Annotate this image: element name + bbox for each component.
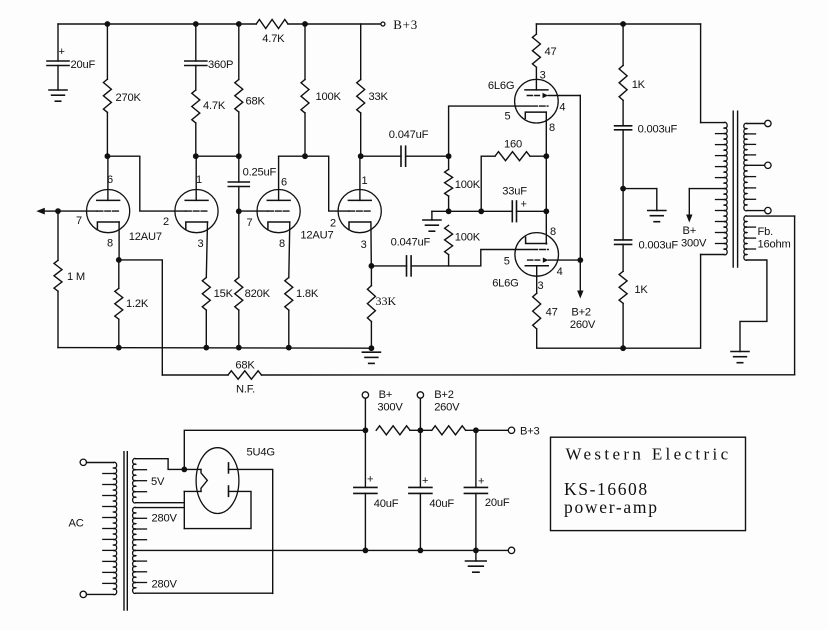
filament 5U4G — [201, 469, 207, 491]
wire 40uF-1 top lead — [364, 430, 366, 487]
resistor 100K (bottom grid leak) — [445, 225, 453, 254]
label B+2 (arrow) — [571, 307, 591, 319]
pin 7 label V3 — [247, 217, 253, 229]
label 0.047uF (top) — [389, 129, 429, 141]
svg-text:12AU7: 12AU7 — [129, 231, 162, 243]
svg-text:33K: 33K — [376, 294, 397, 308]
svg-text:+: + — [521, 199, 527, 211]
wire 0.25uF to V3 grid — [238, 187, 240, 212]
pin 8 label bottom 6L6G — [550, 226, 556, 238]
svg-text:B+2: B+2 — [434, 389, 454, 401]
wire rectifier bottom rectangle — [184, 491, 251, 528]
svg-text:1K: 1K — [634, 284, 648, 296]
resistor 1.2K — [115, 288, 123, 319]
node 68K/0.25uF — [236, 153, 242, 159]
pin 4 label bottom 6L6G — [557, 266, 563, 278]
wire 33K cathode resistor top — [370, 266, 372, 286]
svg-text:160: 160 — [504, 139, 522, 151]
wire center node to 0.003uF bottom — [622, 189, 624, 240]
node 270K/plate V1 — [105, 153, 111, 159]
pin 3 label top 6L6G — [540, 70, 546, 82]
wire 1M top lead — [57, 211, 59, 260]
label 1.2K — [126, 298, 149, 310]
label 5V — [151, 476, 165, 488]
svg-text:280V: 280V — [152, 579, 178, 591]
label 260V (arrow) — [570, 319, 596, 331]
svg-text:1.2K: 1.2K — [126, 298, 149, 310]
node V4 cathode / 33K / 0.047uF — [369, 263, 375, 269]
svg-text:820K: 820K — [245, 288, 271, 300]
wire screen column — [579, 96, 581, 260]
svg-text:33K: 33K — [369, 91, 389, 103]
ground PSU — [466, 561, 487, 572]
wire secondary tap1 — [747, 123, 765, 125]
node rail-100K — [302, 21, 308, 27]
svg-text:6: 6 — [281, 177, 287, 189]
label 0.25uF — [243, 167, 277, 179]
node bias row left — [446, 208, 452, 214]
wire 68K to 0.25uF junction — [238, 112, 240, 156]
wire 4.7K to plate junction — [195, 123, 197, 156]
wire gnd stub PSU — [475, 550, 477, 561]
core output transformer — [733, 111, 737, 267]
wire B+ terminal stub — [364, 398, 366, 430]
coil output secondary feedback — [744, 216, 756, 260]
node 100K/plate V3 — [302, 153, 308, 159]
svg-text:100K: 100K — [455, 179, 481, 191]
resistor 820K — [235, 278, 243, 311]
label + of 20uF PSU — [478, 476, 484, 488]
svg-text:8: 8 — [550, 226, 556, 238]
node bus-1.8K — [286, 345, 292, 351]
wire V4 cathode lead — [370, 222, 372, 266]
wire 160 right lead — [530, 155, 546, 157]
label 20uF — [71, 59, 96, 71]
wire B+3 top rail left segment — [58, 23, 256, 25]
terminal AC bottom — [80, 591, 86, 597]
label 6L6G bottom — [492, 278, 518, 290]
svg-text:+: + — [422, 475, 428, 487]
wire 20uF column from rail — [57, 24, 59, 61]
wire 100K grid leak bottom lead — [448, 196, 450, 211]
node bus-820K — [236, 345, 242, 351]
label 6L6G top — [488, 80, 514, 92]
wire 33K column upper — [360, 24, 362, 80]
svg-text:100K: 100K — [316, 91, 342, 103]
wire 20uF to ground — [57, 66, 59, 91]
svg-text:40uF: 40uF — [429, 498, 454, 510]
svg-text:6: 6 — [107, 174, 113, 186]
svg-text:0.047uF: 0.047uF — [391, 237, 431, 249]
label B+3 (PSU) — [520, 426, 540, 438]
arrow B+ center tap — [686, 189, 692, 223]
title KS-16608 — [564, 479, 649, 499]
svg-text:B+2: B+2 — [571, 307, 591, 319]
wire 5V top lead — [136, 459, 181, 470]
node rail-68K — [236, 21, 242, 27]
svg-text:7: 7 — [76, 215, 82, 227]
wire primary center tap — [689, 188, 724, 190]
svg-text:3: 3 — [540, 70, 546, 82]
wire 160 left end drop — [480, 156, 482, 211]
ground main bus — [362, 352, 380, 363]
svg-text:1.8K: 1.8K — [296, 288, 319, 300]
label Fb. — [758, 226, 774, 238]
wire bias row to ground stub — [432, 210, 449, 212]
wire input node to V1 grid — [58, 210, 97, 212]
svg-text:12AU7: 12AU7 — [300, 230, 333, 242]
wire cathode lead bottom 6L6G — [545, 211, 547, 244]
coil output secondary section1 — [744, 123, 756, 165]
svg-text:6L6G: 6L6G — [492, 278, 518, 290]
label 5U4G — [247, 447, 275, 459]
svg-text:B+: B+ — [379, 389, 393, 401]
wire filament bottom lead — [184, 490, 201, 492]
wire bias row middle — [449, 210, 512, 212]
label 0.003uF (top) — [638, 124, 678, 136]
svg-text:68K: 68K — [246, 95, 266, 107]
label 1K (top) — [632, 79, 646, 91]
terminal B+ (PSU) — [362, 392, 368, 398]
wire 270K column upper — [106, 24, 108, 79]
coil power primary — [103, 462, 117, 595]
label 4.7K (second stage) — [203, 100, 226, 112]
wire 40uF-2 bottom lead — [419, 493, 421, 550]
wire ground bus left segment — [58, 347, 371, 350]
pin 8 label top 6L6G — [549, 122, 555, 134]
wire 1.8K to bus — [288, 310, 290, 348]
wire NF line left — [162, 374, 228, 376]
title Western Electric — [566, 445, 732, 464]
svg-text:3: 3 — [361, 239, 367, 251]
svg-text:260V: 260V — [570, 319, 596, 331]
node top rail 1K — [620, 21, 626, 27]
wire 1K to 0.003uF — [622, 100, 624, 126]
pin 3 label bottom 6L6G — [537, 280, 543, 292]
title power-amp — [564, 497, 659, 517]
wire 270K to plate junction — [106, 112, 108, 156]
wire 100K to plate junction — [304, 113, 306, 156]
label 0.047uF (bottom) — [391, 237, 431, 249]
pin 3 label V2 — [198, 238, 204, 250]
triode V4 (12AU7 d) — [338, 190, 381, 233]
wire V1 plate to V2 grid — [107, 156, 185, 211]
wire AC top lead — [87, 462, 114, 464]
tube 6L6G bottom — [515, 233, 581, 277]
ground fb winding — [731, 352, 749, 363]
wire 280V-1 top lead — [136, 507, 185, 509]
coil 280V windings (HV) — [133, 507, 147, 593]
terminal B+3 (top right) — [381, 22, 385, 26]
node V1 cathode / 1.2K / NF — [116, 257, 122, 263]
wire 1K bottom to bus — [622, 303, 624, 348]
wire rail r1-r2 — [410, 429, 432, 431]
wire rail to B+3 terminal — [466, 429, 509, 431]
label 1K (bottom) — [634, 284, 648, 296]
label 100K (bottom grid leak) — [455, 232, 481, 244]
label 68K — [246, 95, 266, 107]
label + of 33uF — [521, 199, 527, 211]
wire 0.25uF column — [238, 156, 240, 182]
wire 360P to 4.7K — [195, 66, 197, 91]
pin 6 label V1 — [107, 174, 113, 186]
pin 7 label V1 — [76, 215, 82, 227]
wire V2 plate junction to 68K — [196, 155, 239, 157]
label 1M — [67, 271, 85, 283]
wire 68K column upper — [238, 24, 240, 80]
label 33K (fourth stage) — [369, 91, 389, 103]
svg-text:1: 1 — [362, 175, 368, 187]
label 12AU7 first — [129, 231, 162, 243]
wire 0.047uF bottom to grid corner — [412, 250, 531, 266]
wire fb winding bottom — [740, 260, 767, 352]
capacitor 20uF (input filter) — [47, 61, 69, 66]
label 16ohm — [758, 239, 791, 251]
wire V3 plate to V4 grid — [279, 156, 349, 211]
node B+2 rail 40uF-2 — [418, 427, 424, 433]
node bus 20uF — [473, 548, 479, 554]
core power transformer — [124, 452, 127, 610]
svg-text:33uF: 33uF — [502, 186, 527, 198]
wire B+2 terminal stub — [419, 398, 421, 430]
resistor PSU dropper 2 — [432, 426, 466, 435]
resistor 15K — [202, 278, 210, 311]
capacitor 0.25uF — [228, 182, 249, 187]
svg-text:47: 47 — [546, 307, 558, 319]
resistor 1K (top) — [619, 65, 627, 100]
label 360P — [208, 59, 233, 71]
resistor 100K (top grid leak) — [445, 169, 453, 196]
capacitor 0.003uF (top) — [615, 126, 632, 130]
svg-text:5V: 5V — [151, 476, 165, 488]
wire filament node to tube — [184, 468, 201, 470]
svg-text:260V: 260V — [434, 402, 460, 414]
svg-text:2: 2 — [163, 216, 169, 228]
resistor 1K (bottom) — [619, 271, 627, 303]
wire V2 cathode lead — [206, 222, 207, 278]
label 0.003uF (bottom) — [639, 240, 679, 252]
wire 0.047uF to 100K junction — [406, 155, 449, 157]
wire 100K grid leak top lead — [448, 156, 450, 169]
wire primary bottom lead — [701, 254, 724, 256]
terminal AC top — [80, 459, 86, 465]
svg-text:280V: 280V — [152, 513, 178, 525]
label + of 40uF first — [367, 474, 373, 486]
terminal secondary tap3 — [765, 207, 771, 213]
wire center node to ground — [623, 189, 657, 211]
node bias row 160 drop — [478, 208, 484, 214]
wire 15K to bus — [205, 310, 207, 348]
title box frame — [551, 437, 746, 530]
label 12AU7 second — [300, 230, 333, 242]
node rectifier filament node — [181, 467, 187, 473]
svg-text:8: 8 — [279, 238, 285, 250]
wire top 6L6G plate lead — [535, 67, 537, 90]
pin 3 label V4 — [361, 239, 367, 251]
svg-text:Fb.: Fb. — [758, 226, 774, 238]
arrow B+2 — [577, 260, 583, 298]
pin 5 label bottom 6L6G — [504, 256, 510, 268]
svg-text:5U4G: 5U4G — [247, 447, 275, 459]
node 4.7K/plate V2 — [193, 153, 199, 159]
svg-text:4: 4 — [557, 266, 563, 278]
node screen column B+2 — [577, 257, 583, 263]
node rail-360P — [193, 21, 199, 27]
label N.F. — [236, 384, 255, 396]
svg-text:300V: 300V — [681, 238, 707, 250]
svg-text:KS-16608: KS-16608 — [564, 479, 649, 499]
wire V3 plate lead — [278, 156, 280, 200]
input arrow — [36, 208, 58, 215]
svg-text:+: + — [59, 46, 65, 58]
wire cathode lead top 6L6G — [545, 112, 547, 156]
svg-text:8: 8 — [107, 238, 113, 250]
triode V1 (12AU7 a) — [87, 190, 130, 233]
svg-text:7: 7 — [247, 217, 253, 229]
wire V4 plate lead — [359, 156, 361, 200]
svg-text:4: 4 — [559, 102, 565, 114]
pin 2 label V4 — [330, 218, 336, 230]
node rail-270K — [105, 21, 111, 27]
ground snubber — [648, 211, 666, 222]
label 100K (third stage) — [316, 91, 342, 103]
node 33uF / cathode column — [543, 208, 549, 214]
label 300V (PSU) — [377, 402, 403, 414]
resistor 100K (third stage plate) — [301, 80, 309, 114]
pin 2 label V2 — [163, 216, 169, 228]
coil output secondary section2 — [744, 165, 756, 211]
node bus ground — [369, 345, 375, 351]
svg-text:power-amp: power-amp — [564, 497, 659, 517]
resistor 1.8K — [285, 278, 293, 311]
svg-text:Western Electric: Western Electric — [566, 445, 732, 464]
label 270K — [116, 92, 142, 104]
wire V3 cathode lead — [289, 222, 290, 278]
wire grid riser to top 6L6G — [449, 106, 531, 156]
svg-text:5: 5 — [505, 111, 511, 123]
wire cathode column (between 6L6Gs) — [545, 156, 547, 211]
svg-text:16ohm: 16ohm — [758, 239, 791, 251]
label 68K (NF) — [235, 360, 255, 372]
label B+3 (top right) — [393, 17, 418, 32]
resistor 4.7K (second stage) — [192, 90, 200, 123]
svg-text:40uF: 40uF — [374, 498, 399, 510]
node snubber center — [620, 186, 626, 192]
pin 8 label V3 — [279, 238, 285, 250]
resistor 33K (V4 cathode) — [367, 286, 375, 322]
wire B+ takeoff — [184, 430, 362, 469]
wire 100K bottom grid leak bottom lead — [448, 255, 450, 266]
label B+ (center tap) — [683, 225, 697, 237]
svg-text:360P: 360P — [208, 59, 233, 71]
svg-text:+: + — [478, 476, 484, 488]
ground bias network — [423, 220, 441, 231]
label 260V (PSU) — [434, 402, 460, 414]
wire 20uF bottom lead — [475, 493, 477, 550]
svg-text:3: 3 — [537, 280, 543, 292]
resistor 1M — [54, 260, 62, 291]
label 47 (top) — [545, 46, 557, 58]
terminal secondary tap1 — [765, 120, 771, 126]
svg-text:300V: 300V — [377, 402, 403, 414]
capacitor 33uF (cathode bypass) — [512, 201, 516, 222]
wire cathode node to NF dropper — [119, 260, 163, 375]
svg-text:B+3: B+3 — [393, 17, 418, 32]
svg-text:15K: 15K — [214, 288, 234, 300]
ground below 20uF — [49, 90, 67, 101]
svg-text:1 M: 1 M — [67, 271, 85, 283]
svg-text:0.047uF: 0.047uF — [389, 129, 429, 141]
wire 0.003uF bottom to 1K — [622, 244, 624, 271]
label B+ (PSU) — [379, 389, 393, 401]
wire 160 left lead — [481, 155, 495, 157]
coil 5V winding — [133, 458, 147, 503]
wire ground stub down — [431, 211, 433, 220]
wire 33K junction to 0.047uF — [361, 155, 401, 157]
svg-text:1K: 1K — [632, 79, 646, 91]
resistor PSU dropper 1 — [376, 426, 410, 435]
svg-text:8: 8 — [549, 122, 555, 134]
capacitor 0.047uF (bottom coupling) — [407, 256, 412, 276]
node V3 grid / 820K — [236, 208, 242, 214]
svg-text:68K: 68K — [235, 360, 255, 372]
tube 6L6G top — [515, 79, 581, 123]
svg-text:1: 1 — [196, 174, 202, 186]
resistor 47 (bottom plate) — [533, 293, 541, 329]
wire primary top lead — [701, 24, 724, 123]
wire HV center tap / ground bus — [136, 549, 509, 551]
wire 33K cathode to bus — [370, 322, 372, 349]
wire bottom 6L6G plate lead — [536, 266, 538, 293]
label + of 20uF — [59, 46, 65, 58]
wire V1 plate lead — [107, 156, 109, 200]
capacitor 40uF second — [409, 487, 432, 493]
node 0.047/100K/grid riser — [446, 153, 452, 159]
label 280V (winding 1) — [152, 513, 178, 525]
pin 6 label V3 — [281, 177, 287, 189]
svg-text:B+: B+ — [683, 225, 697, 237]
tube 5U4G rectifier — [196, 448, 239, 514]
label 20uF PSU — [485, 497, 510, 509]
plate bar bottom 5U4G — [228, 486, 230, 496]
wire 0.047uF bottom row left — [371, 265, 406, 267]
svg-text:2: 2 — [330, 218, 336, 230]
pin 4 label top 6L6G — [559, 102, 565, 114]
node bus 40uF-1 — [363, 548, 369, 554]
triode V3 (12AU7 c) — [257, 190, 300, 233]
label 33uF — [502, 186, 527, 198]
terminal B+3 (PSU) — [508, 427, 514, 433]
svg-text:N.F.: N.F. — [236, 384, 255, 396]
svg-text:AC: AC — [69, 518, 84, 530]
svg-text:0.003uF: 0.003uF — [639, 240, 679, 252]
wire NF line right — [262, 374, 795, 376]
wire 40uF-2 top lead — [419, 430, 421, 487]
wire V3 grid entry — [239, 210, 268, 212]
capacitor 20uF (PSU) — [464, 487, 487, 493]
capacitor 0.047uF (top coupling) — [401, 146, 406, 166]
pin 1 label V2 — [196, 174, 202, 186]
wire 47 top to rail — [535, 24, 537, 34]
resistor 47 (top plate) — [532, 34, 540, 67]
label + of 40uF second — [422, 475, 428, 487]
svg-text:270K: 270K — [116, 92, 142, 104]
resistor 4.7K (series in B+3 rail) — [256, 20, 288, 29]
wire 33uF right lead — [517, 210, 547, 212]
node input/1M/V1 grid — [55, 208, 61, 214]
wire 33K to coupling junction — [360, 113, 362, 156]
capacitor 40uF first — [354, 487, 377, 493]
